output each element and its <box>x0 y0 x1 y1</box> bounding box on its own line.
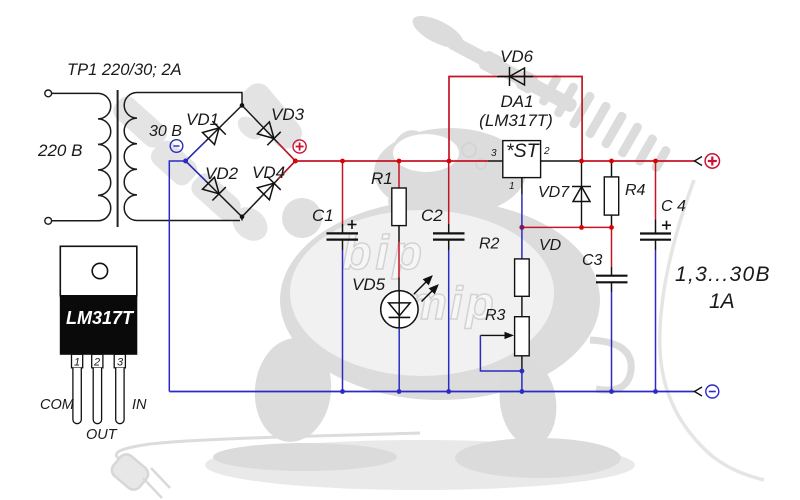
wire VD6 segment <box>497 76 533 78</box>
svg-text:(LM317T): (LM317T) <box>479 111 553 130</box>
svg-text:R1: R1 <box>371 169 393 188</box>
svg-text:COM: COM <box>40 397 75 413</box>
capacitor C2 <box>421 161 465 392</box>
svg-text:VD7: VD7 <box>538 184 570 201</box>
resistor R4 <box>604 161 645 227</box>
transformer TP1 <box>37 61 182 227</box>
junction R4-C3/adj wire <box>609 225 614 230</box>
junction C4/rail <box>653 159 658 164</box>
junction VD7/adj wire <box>579 225 584 230</box>
node bridge right (plus) <box>293 159 298 164</box>
output minus terminal <box>695 385 719 398</box>
wire edge left-top blue part <box>186 141 206 161</box>
wire positive rail left section <box>295 160 488 162</box>
junction R3/negative rail <box>520 389 525 394</box>
wire edge left-bottom <box>186 161 242 221</box>
diode VD7 <box>538 161 591 227</box>
diode VD6 <box>510 67 525 86</box>
wire edge top-right red part <box>278 143 295 161</box>
capacitor C4 <box>640 161 686 392</box>
svg-text:1,3...30В: 1,3...30В <box>675 263 771 286</box>
pin box 3 <box>114 354 125 368</box>
resistor R1 <box>371 161 406 291</box>
svg-text:VD4: VD4 <box>252 163 285 182</box>
svg-text:VD6: VD6 <box>500 47 534 66</box>
wire edge left-top <box>186 105 242 161</box>
svg-text:220 В: 220 В <box>37 141 82 160</box>
junction C2/negative rail <box>446 389 451 394</box>
svg-text:R4: R4 <box>625 182 646 199</box>
LED VD5 <box>352 275 438 392</box>
wire negative rail <box>169 391 694 393</box>
junction C2-VD6/rail <box>447 159 452 164</box>
capacitor C1 <box>312 161 358 392</box>
potentiometer R3 <box>480 307 529 392</box>
wiper arrow <box>480 334 507 336</box>
diode VD2 <box>202 176 226 200</box>
pin leg 1 <box>73 368 81 424</box>
svg-text:1А: 1А <box>709 290 735 313</box>
svg-text:30 В: 30 В <box>149 123 182 140</box>
wire secondary bottom to bridge <box>137 220 240 222</box>
svg-text:R3: R3 <box>485 307 506 324</box>
svg-text:TP1 220/30; 2A: TP1 220/30; 2A <box>67 61 182 79</box>
svg-text:DA1: DA1 <box>500 92 533 111</box>
wire VD6 bypass loop <box>449 77 582 162</box>
diode VD3 <box>257 121 281 145</box>
pin leg 3 <box>116 368 124 424</box>
junction VD5/negative rail <box>397 389 402 394</box>
pin box 2 <box>92 354 103 368</box>
junction C4/negative rail <box>653 389 658 394</box>
junction R3 wiper <box>520 369 525 374</box>
junction C3/negative rail <box>609 389 614 394</box>
svg-text:IN: IN <box>132 397 147 413</box>
wire edge top-right <box>242 105 295 161</box>
junction R4/rail <box>609 159 614 164</box>
junction R1/rail <box>397 159 402 164</box>
regulator DA1 box <box>479 92 553 192</box>
svg-text:*ST: *ST <box>506 140 541 162</box>
diode bridge edges <box>186 105 296 220</box>
junction pin1/adj wire <box>519 225 524 230</box>
svg-text:2: 2 <box>543 146 550 157</box>
output plus terminal <box>695 154 720 168</box>
LM317T package drawing <box>40 246 147 443</box>
wire minus: bridge left node down to negative rail <box>169 161 185 392</box>
svg-text:VD1: VD1 <box>186 110 219 129</box>
node bridge top <box>240 103 245 108</box>
pin leg 2 <box>93 368 101 424</box>
svg-text:LM317T: LM317T <box>66 308 135 328</box>
wire primary top <box>52 92 98 94</box>
wire edge bottom-right red part <box>278 161 295 179</box>
svg-text:C1: C1 <box>312 206 334 225</box>
svg-text:1: 1 <box>74 357 80 369</box>
node bridge left (minus) <box>183 159 188 164</box>
svg-text:3: 3 <box>491 148 497 159</box>
wire primary bottom <box>52 220 98 222</box>
wire secondary top to bridge <box>137 93 242 106</box>
svg-text:R2: R2 <box>479 236 500 253</box>
resistor R2 <box>479 227 529 316</box>
primary winding <box>98 93 111 220</box>
svg-text:VD: VD <box>539 237 562 254</box>
diode VD1 <box>202 121 226 145</box>
diode VD4 <box>257 176 281 200</box>
svg-text:VD2: VD2 <box>205 164 239 183</box>
svg-text:2: 2 <box>93 357 100 369</box>
core <box>117 90 119 227</box>
svg-text:3: 3 <box>117 357 124 369</box>
wire pin3 stub <box>488 160 503 162</box>
wire pin2 stub <box>541 160 582 162</box>
secondary winding <box>124 93 137 221</box>
minus symbol at bridge <box>170 140 183 153</box>
wire edge bottom-right <box>242 161 295 217</box>
svg-text:VD3: VD3 <box>271 105 305 124</box>
wiper wire <box>480 335 522 371</box>
primary terminal bottom <box>45 217 52 224</box>
node bridge bottom <box>240 215 245 220</box>
svg-text:bip: bip <box>342 227 426 280</box>
junction VD6-VD7/rail <box>579 159 584 164</box>
junction C1/rail <box>340 159 345 164</box>
svg-text:C2: C2 <box>421 206 443 225</box>
svg-text:C 4: C 4 <box>661 198 686 215</box>
wire adj horizontal <box>522 226 612 228</box>
svg-text:C3: C3 <box>582 252 603 269</box>
wire positive rail right section <box>582 160 695 162</box>
pin box 1 <box>72 354 83 368</box>
wire pin1 <box>521 178 523 194</box>
svg-text:1: 1 <box>509 181 515 192</box>
primary terminal top <box>45 90 52 97</box>
capacitor C3 <box>582 227 628 391</box>
plus symbol at bridge <box>293 140 306 153</box>
svg-text:mip: mip <box>406 277 497 329</box>
svg-text:OUT: OUT <box>86 427 118 443</box>
junction C1/negative rail <box>340 389 345 394</box>
svg-text:VD5: VD5 <box>352 275 386 294</box>
wire edge left-bottom blue part <box>186 161 206 181</box>
